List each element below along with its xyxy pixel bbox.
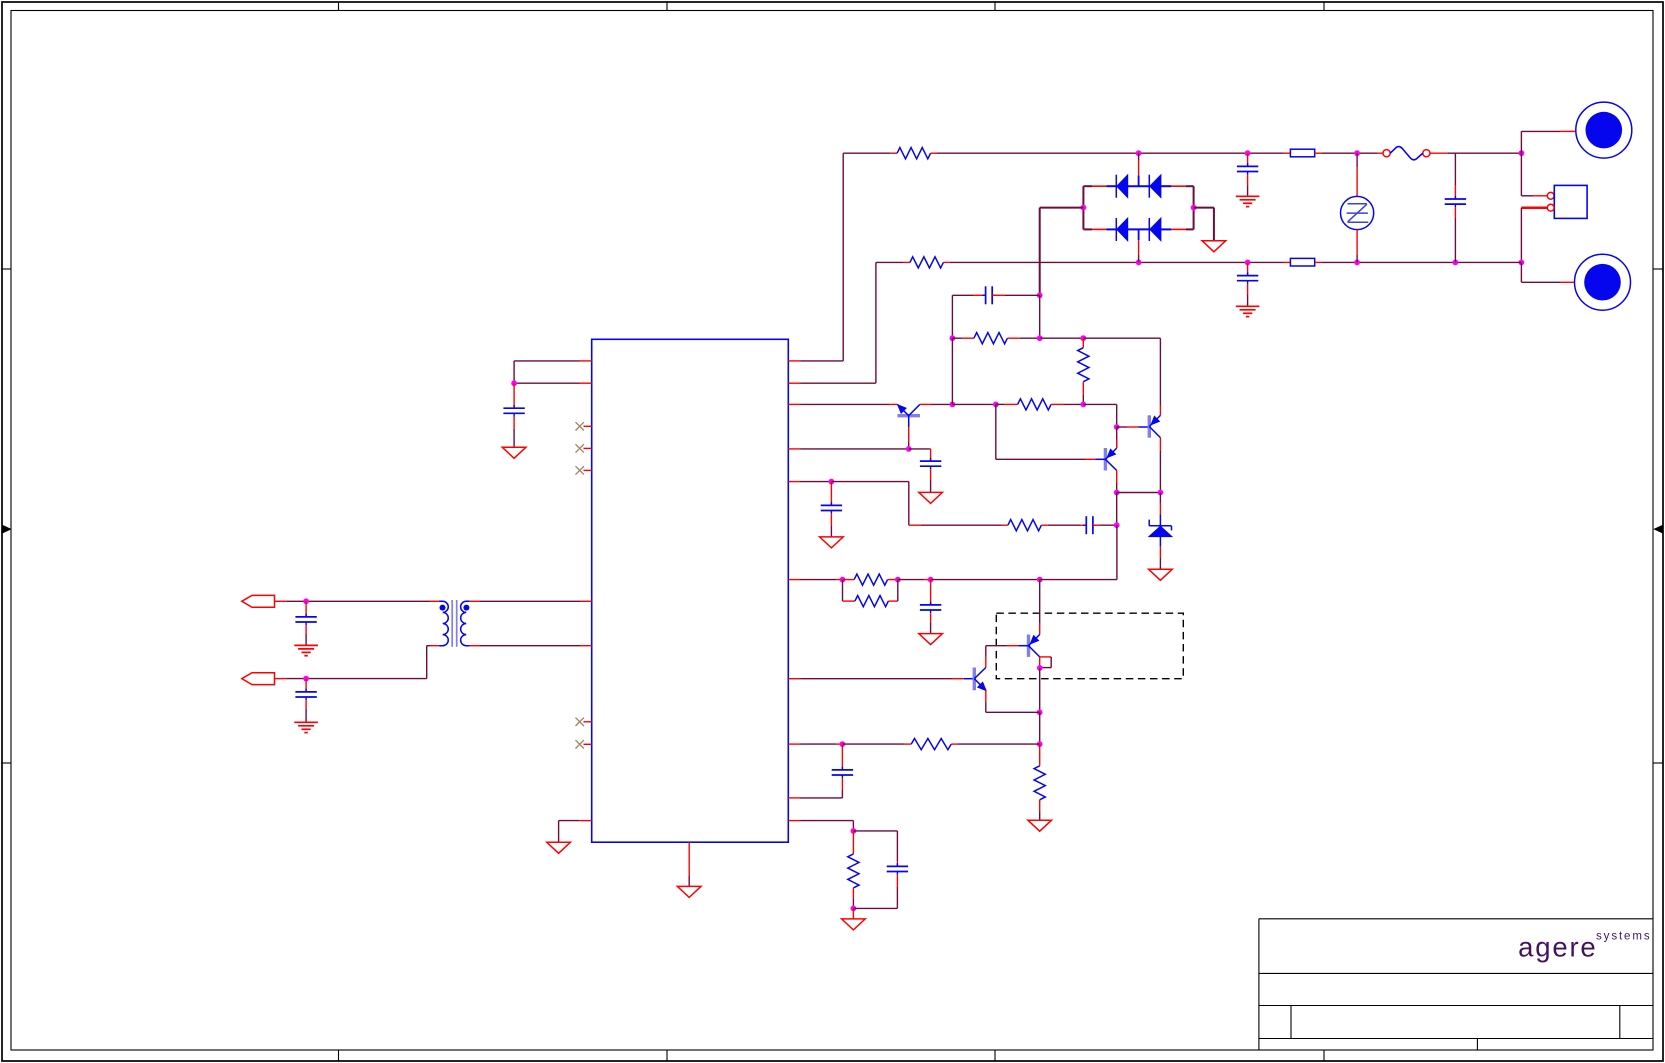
- node RC bottom: [851, 906, 857, 912]
- svg-text:agere: agere: [1518, 932, 1597, 963]
- wire mid row corner down: [1116, 404, 1118, 427]
- node R3 left: [950, 335, 956, 341]
- node ring at C4: [1453, 260, 1459, 266]
- node R4 top: [1080, 335, 1086, 341]
- wire ring line left segment: [876, 261, 904, 263]
- wire T1 secondary bottom to IC: [470, 645, 480, 647]
- wire Q1 collector to mid node: [920, 403, 931, 405]
- U2 emitter loop: [1039, 657, 1041, 668]
- wire bridge left to RX column: [1040, 207, 1084, 209]
- wire bead to fuse: [1321, 152, 1377, 154]
- wire corner up to feedback row: [1116, 525, 1118, 579]
- node C6: [829, 479, 835, 485]
- node RC top: [851, 828, 857, 834]
- wire node to Q2 base: [1117, 426, 1127, 428]
- capacitor C4: [1454, 153, 1456, 185]
- wire ring line to ferrite bead: [950, 261, 1284, 263]
- wire Q3 emitter stub: [1116, 447, 1118, 449]
- capacitor C6: [830, 482, 832, 506]
- diode D2: [1148, 175, 1150, 198]
- ground below C6: [820, 537, 844, 548]
- wire RX column upper: [1039, 208, 1041, 296]
- earth ground at C9: [294, 721, 318, 723]
- bridge bottom row leads: [1083, 228, 1092, 230]
- wire jack pin2 down to ring node: [1520, 208, 1522, 263]
- wire to C13 node: [898, 579, 924, 581]
- bridge top row leads: [1083, 185, 1092, 187]
- wire T1 secondary top to IC: [470, 600, 480, 602]
- no-connect pin 3: [584, 469, 592, 471]
- capacitor C9: [305, 679, 307, 692]
- T1 secondary polarity dot: [463, 605, 469, 611]
- node mid row left: [950, 402, 956, 408]
- wire IC pin to RC pair: [788, 820, 800, 822]
- resistor R4: [1082, 338, 1084, 348]
- node RX at C5: [1037, 292, 1043, 298]
- wire C11 bottom to IC pin: [801, 797, 843, 799]
- wire IC pin to C6 node: [788, 481, 800, 483]
- wire IC pin to Q4 base: [788, 678, 800, 680]
- capacitor C11: [841, 744, 843, 770]
- ground below C13: [919, 634, 943, 645]
- bridge left rail: [1082, 186, 1084, 229]
- diode D3: [1115, 218, 1117, 241]
- node Q4 emitter row: [1037, 709, 1043, 715]
- transistor Q2: [1148, 415, 1151, 437]
- node tip at sidactor: [1354, 150, 1360, 156]
- wire C5 left leg down: [951, 295, 953, 338]
- no-connect pin 4: [584, 721, 592, 723]
- wire Q3 collector down: [1116, 471, 1118, 484]
- node parallel R left: [840, 577, 846, 583]
- wire Q1 base down: [908, 427, 910, 442]
- node R4 bottom: [1080, 402, 1086, 408]
- transistor Q1: [897, 414, 920, 417]
- port TXA1: [242, 595, 275, 607]
- node after fuse: [1519, 150, 1525, 156]
- node zener top: [1158, 490, 1164, 496]
- node bias row: [1037, 741, 1043, 747]
- wire RX column lower: [1039, 295, 1041, 338]
- wire IC pin to bias row: [788, 743, 800, 745]
- transistor Q4: [973, 668, 976, 691]
- node U2 emitter: [1037, 665, 1043, 671]
- zener diode D5: [1159, 493, 1161, 504]
- wire fuse to RJ11 node: [1430, 152, 1448, 154]
- wire down to Q2 emitter: [1159, 338, 1161, 405]
- resistor R3: [952, 337, 961, 339]
- no-connect pin 5: [584, 743, 592, 745]
- feedback row wire: [909, 524, 921, 526]
- parallel loop R7B: [842, 580, 844, 602]
- wire up to jack tip contact: [1520, 131, 1522, 153]
- earth ground at C8: [294, 644, 318, 646]
- wire emitter column: [1039, 668, 1041, 712]
- node R3 right: [1037, 335, 1043, 341]
- node C9: [303, 676, 309, 682]
- wire IC pin to Q1 emitter: [788, 403, 800, 405]
- capacitor C13: [930, 580, 932, 605]
- resistor R1: [897, 148, 930, 159]
- capacitor C5: [952, 294, 973, 296]
- transformer T1 primary winding: [439, 601, 448, 645]
- wire TXA1 to transformer: [275, 600, 288, 602]
- resistor R10 to ground: [1039, 744, 1041, 766]
- ferrite bead FB2: [1290, 258, 1314, 266]
- bridge bottom center tap: [1138, 229, 1140, 240]
- resistor R7A: [854, 574, 887, 585]
- node C11 top: [840, 741, 846, 747]
- diode D4: [1148, 218, 1150, 241]
- jack body pin 2 thick red wire: [1521, 206, 1547, 209]
- ground below C10: [502, 447, 526, 458]
- earth ground at C2: [1236, 305, 1260, 307]
- capacitor C8: [305, 601, 307, 617]
- ferrite bead FB1: [1290, 149, 1314, 157]
- optocoupler dashed outline: [996, 613, 1183, 679]
- wire TXA2 to transformer: [275, 678, 288, 680]
- ground below zener: [1149, 569, 1173, 580]
- wire ring vertical from IC pin: [875, 262, 877, 383]
- transistor Q3: [1104, 448, 1107, 471]
- bridge right rail: [1193, 186, 1195, 229]
- capacitor C12 parallel loop: [853, 830, 897, 832]
- resistor R6: [1008, 520, 1042, 531]
- wire tip vertical from IC pin to top line: [842, 153, 844, 361]
- resistor R2: [910, 257, 943, 268]
- wire R3 row to right: [1040, 337, 1084, 339]
- node ring at sidactor: [1354, 260, 1360, 266]
- port TXA2: [242, 673, 275, 685]
- wire Q2 collector down: [1159, 438, 1161, 451]
- wire IC pin left y361: [580, 360, 592, 362]
- wire Q4 collector up: [985, 657, 987, 668]
- capacitor C2: [1247, 262, 1249, 275]
- wire bridge right to ground: [1194, 207, 1214, 209]
- capacitor C1: [1247, 153, 1249, 166]
- ground below RC: [852, 908, 854, 919]
- wire IC pin left y383: [580, 382, 592, 384]
- no-connect pin 1: [584, 425, 592, 427]
- sidactor RV1: [1356, 153, 1358, 167]
- transformer T1 core: [451, 600, 453, 647]
- title block: [1258, 919, 1260, 1050]
- wire tip line to ferrite bead: [937, 152, 1284, 154]
- wire mid row: [952, 403, 995, 405]
- wire down to jack body pin 1: [1520, 153, 1522, 196]
- node C13: [928, 577, 934, 583]
- wire IC pin to Q1 base node: [788, 448, 800, 450]
- resistor R5: [1018, 399, 1052, 410]
- resistor R9: [852, 831, 854, 854]
- bridge top center tap: [1138, 175, 1140, 186]
- diode D1: [1115, 175, 1117, 198]
- node ring at C2: [1245, 260, 1251, 266]
- ground below C3: [919, 492, 943, 503]
- node C8: [303, 598, 309, 604]
- wire corner down to feedback row: [908, 482, 910, 526]
- IC U1 main codec/DAA chip: [592, 339, 789, 842]
- wire Q4 emitter down: [985, 690, 987, 702]
- phototransistor U2: [1027, 635, 1030, 657]
- node parallel R right: [895, 577, 901, 583]
- transformer T1 secondary winding: [461, 601, 470, 645]
- wire IC bottom-left pin to ground: [579, 820, 591, 822]
- wire down to phototransistor collector: [1039, 580, 1041, 624]
- node Q3 collector: [1114, 490, 1120, 496]
- node Q2 base column: [1114, 424, 1120, 430]
- node C10: [511, 380, 517, 386]
- wire Q3 base row: [995, 404, 997, 459]
- fuse F1: [1383, 150, 1390, 157]
- svg-text:systems: systems: [1596, 931, 1651, 943]
- jack ring contact circle: [1575, 254, 1631, 310]
- wire down to feedback row: [1116, 493, 1118, 526]
- wire ring line right segment: [1321, 261, 1521, 263]
- node tip at bridge top: [1136, 150, 1142, 156]
- wire to jack ring contact: [1520, 262, 1522, 282]
- wire tip top line left segment: [843, 152, 891, 154]
- wire IC pin to parallel resistors: [788, 579, 800, 581]
- wire U2 base to Q4 collector: [1007, 645, 1019, 647]
- wire collector row: [1117, 492, 1161, 494]
- node Q1 base: [906, 446, 912, 452]
- jack tip contact circle: [1576, 102, 1632, 158]
- node ring at bridge bottom: [1136, 260, 1142, 266]
- node tip at C1: [1245, 150, 1251, 156]
- IC bottom center pin ground: [688, 842, 690, 876]
- earth ground at C1: [1236, 195, 1260, 197]
- wire C5 leg to mid row: [951, 338, 953, 404]
- node ring at jack: [1519, 260, 1525, 266]
- capacitor C10: [513, 383, 515, 408]
- T1 primary polarity dot: [440, 605, 446, 611]
- node mid row branch: [993, 402, 999, 408]
- jack body square: [1554, 185, 1587, 218]
- node opto column top: [1037, 577, 1043, 583]
- resistor R8: [911, 739, 951, 750]
- node feedback right: [1114, 522, 1120, 528]
- no-connect pin 2: [584, 447, 592, 449]
- ground at bridge right: [1202, 241, 1226, 252]
- capacitor C7: [1085, 516, 1087, 534]
- capacitor C3: [930, 449, 932, 461]
